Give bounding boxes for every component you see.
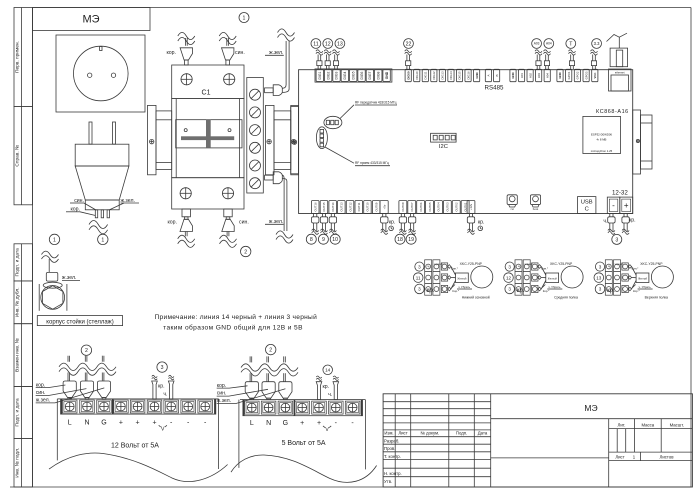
svg-text:ethernet: ethernet [615, 71, 625, 75]
svg-text:Т. контр.: Т. контр. [384, 454, 401, 459]
svg-text:ч.: ч. [163, 392, 167, 398]
svg-text:Кор.*: Кор.* [452, 289, 460, 293]
svg-text:9: 9 [322, 237, 325, 243]
svg-text:12: 12 [325, 41, 331, 47]
svg-text:OUT09: OUT09 [374, 202, 378, 211]
svg-text:C: C [585, 207, 589, 213]
svg-text:RF передатчик 433/315 МГц: RF передатчик 433/315 МГц [355, 101, 397, 105]
svg-text:OUT14: OUT14 [331, 202, 335, 211]
svg-text:3: 3 [599, 287, 602, 292]
svg-text:11: 11 [416, 275, 421, 280]
svg-text:ч. Убрать: ч. Убрать [639, 285, 652, 289]
svg-text:V: V [161, 427, 165, 433]
svg-text:N: N [266, 420, 271, 427]
svg-text:МЭ: МЭ [584, 403, 597, 413]
svg-text:корпус стойки (стеллаж): корпус стойки (стеллаж) [46, 318, 113, 325]
svg-text:-: - [612, 201, 615, 210]
svg-text:Желтый: Желтый [638, 278, 648, 281]
svg-text:A03: A03 [537, 73, 541, 78]
svg-text:2: 2 [269, 347, 272, 353]
svg-text:кр.: кр. [478, 220, 485, 226]
svg-text:I2C: I2C [439, 144, 448, 150]
svg-text:GND: GND [558, 72, 562, 78]
svg-text:+: + [152, 419, 156, 426]
svg-text:Верхняя полка: Верхняя полка [645, 296, 668, 300]
svg-text:OUT10: OUT10 [366, 202, 370, 211]
svg-text:OUT07: OUT07 [410, 202, 414, 211]
svg-text:DIG6: DIG6 [360, 71, 364, 79]
svg-text:13: 13 [337, 41, 343, 47]
svg-text:1: 1 [243, 15, 246, 21]
svg-text:Нижний основной: Нижний основной [462, 296, 490, 300]
svg-text:A01: A01 [520, 73, 524, 78]
svg-text:ч. Убрать: ч. Убрать [458, 285, 471, 289]
svg-text:A04: A04 [546, 42, 552, 46]
svg-text:DIG16: DIG16 [466, 71, 470, 80]
svg-text:XKC-Y25-PNP: XKC-Y25-PNP [640, 262, 663, 266]
svg-text:XKC-Y25-PNP: XKC-Y25-PNP [460, 262, 483, 266]
svg-text:Инв. № дубл.: Инв. № дубл. [15, 287, 21, 317]
svg-text:Кор.*: Кор.* [543, 289, 551, 293]
svg-text:G: G [101, 419, 106, 426]
svg-text:+: + [119, 419, 123, 426]
svg-text:micropython 1.25: micropython 1.25 [591, 149, 613, 153]
svg-text:GND: GND [385, 71, 389, 79]
svg-text:3: 3 [508, 264, 511, 269]
svg-text:A03: A03 [534, 42, 540, 46]
svg-text:Син.*: Син.* [451, 267, 459, 271]
svg-text:2: 2 [244, 249, 247, 255]
svg-text:3.3: 3.3 [594, 41, 600, 46]
svg-text:ч.: ч. [603, 218, 607, 224]
svg-text:син.: син. [239, 220, 249, 226]
svg-text:Примечание: линия 14 черный +: Примечание: линия 14 черный + линия 3 че… [155, 313, 318, 321]
svg-text:Подп. и дата: Подп. и дата [15, 398, 21, 427]
svg-text:Утв.: Утв. [384, 479, 392, 484]
svg-text:3: 3 [615, 237, 618, 243]
svg-text:18: 18 [397, 237, 403, 243]
svg-text:DIG14: DIG14 [449, 71, 453, 80]
svg-text:Лит.: Лит. [618, 422, 626, 427]
svg-text:DIG5: DIG5 [351, 71, 355, 79]
svg-text:+5v: +5v [382, 204, 386, 209]
svg-text:КС868-А16: КС868-А16 [596, 109, 629, 115]
svg-text:DIG7: DIG7 [368, 71, 372, 79]
svg-text:Разраб.: Разраб. [384, 439, 399, 444]
svg-text:ч.: ч. [328, 392, 332, 398]
svg-text:GPO3: GPO3 [584, 71, 588, 79]
svg-text:B: B [495, 74, 499, 76]
svg-text:Масшт.: Масшт. [670, 422, 684, 427]
svg-text:OUT13: OUT13 [340, 202, 344, 211]
svg-text:1: 1 [53, 237, 56, 243]
svg-text:3: 3 [418, 264, 421, 269]
svg-text:A04: A04 [545, 73, 549, 78]
svg-text:DIG10: DIG10 [415, 71, 419, 80]
svg-text:Изм.: Изм. [384, 431, 393, 436]
svg-text:L: L [68, 419, 72, 426]
svg-text:Син.*: Син.* [631, 267, 639, 271]
svg-text:USB: USB [581, 200, 593, 206]
svg-text:12 Вольт от 5А: 12 Вольт от 5А [111, 443, 159, 450]
svg-text:OUT04: OUT04 [437, 202, 441, 211]
svg-text:OUT02: OUT02 [454, 202, 458, 211]
svg-text:OUT03: OUT03 [446, 202, 450, 211]
svg-text:C1: C1 [202, 90, 211, 97]
svg-text:2: 2 [85, 348, 88, 354]
svg-text:DIG15: DIG15 [458, 71, 462, 80]
svg-text:таким образом GND общий для 12: таким образом GND общий для 12В и 5В [163, 324, 303, 332]
svg-text:Подп. и дата: Подп. и дата [15, 248, 21, 277]
svg-text:GPO2: GPO2 [576, 71, 580, 79]
svg-text:DIG09: DIG09 [406, 71, 410, 80]
svg-text:OUT12: OUT12 [348, 202, 352, 211]
svg-text:12: 12 [506, 275, 512, 280]
svg-text:12-32: 12-32 [612, 190, 628, 197]
svg-text:8: 8 [310, 237, 313, 243]
svg-text:+: + [624, 201, 629, 210]
svg-text:кор.: кор. [166, 50, 176, 56]
svg-text:кор.: кор. [167, 220, 177, 226]
svg-text:DIG11: DIG11 [424, 71, 428, 79]
svg-text:Желтый: Желтый [548, 278, 558, 281]
svg-text:boot: boot [533, 207, 539, 211]
svg-text:A: A [487, 74, 491, 76]
svg-text:5 Вольт от 5А: 5 Вольт от 5А [282, 440, 326, 447]
svg-text:OUT11: OUT11 [357, 202, 361, 211]
svg-text:G: G [283, 420, 288, 427]
svg-text:Листов: Листов [660, 455, 675, 460]
svg-text:XKC-Y25-PNP: XKC-Y25-PNP [550, 262, 573, 266]
svg-text:A02: A02 [528, 73, 532, 78]
svg-text:13: 13 [596, 275, 602, 280]
svg-text:DIG13: DIG13 [441, 71, 445, 80]
svg-text:DIG2: DIG2 [326, 71, 330, 79]
svg-text:3: 3 [418, 287, 421, 292]
svg-text:+: + [300, 420, 304, 427]
svg-text:кр.: кр. [389, 220, 396, 226]
svg-text:GND: GND [475, 72, 479, 78]
svg-text:L: L [250, 420, 254, 427]
svg-text:ч. Убрать: ч. Убрать [548, 285, 561, 289]
svg-text:OUT08: OUT08 [401, 202, 405, 211]
svg-text:Инв. № подл.: Инв. № подл. [15, 448, 21, 478]
svg-text:Справ. №: Справ. № [15, 145, 21, 167]
svg-text:10: 10 [332, 237, 338, 243]
svg-text:Н. контр.: Н. контр. [384, 471, 402, 476]
svg-text:VCC: VCC [593, 73, 597, 79]
svg-text:Дата: Дата [478, 431, 488, 436]
svg-text:DIG12: DIG12 [432, 71, 436, 80]
svg-text:4г 8 МВ: 4г 8 МВ [597, 138, 607, 142]
svg-text:Лист: Лист [398, 431, 407, 436]
svg-text:V: V [325, 427, 329, 433]
svg-text:DIG1: DIG1 [318, 71, 322, 79]
svg-text:rst: rst [511, 207, 514, 211]
svg-text:22: 22 [406, 41, 412, 47]
svg-text:N: N [84, 419, 89, 426]
svg-text:Кор.*: Кор.* [633, 289, 641, 293]
svg-text:кр.: кр. [158, 384, 165, 390]
svg-text:МЭ: МЭ [82, 14, 99, 26]
svg-text:Желтый: Желтый [457, 278, 467, 281]
svg-text:DIG4: DIG4 [343, 71, 347, 79]
svg-text:Взамен инв. №: Взамен инв. № [15, 338, 21, 372]
svg-text:кр.: кр. [629, 218, 636, 224]
svg-text:Син.*: Син.* [541, 267, 549, 271]
svg-text:OUT16: OUT16 [313, 202, 317, 211]
svg-text:№ докум.: № докум. [420, 431, 439, 436]
svg-text:3: 3 [161, 365, 164, 371]
svg-text:GPO1: GPO1 [567, 71, 571, 79]
svg-text:1: 1 [101, 237, 104, 243]
svg-text:+12v: +12v [469, 203, 473, 210]
svg-text:RF прием 433/315 МГц: RF прием 433/315 МГц [355, 161, 389, 165]
svg-text:OUT06: OUT06 [419, 202, 423, 211]
svg-text:14: 14 [325, 367, 331, 372]
svg-text:3: 3 [599, 264, 602, 269]
svg-text:DIG3: DIG3 [335, 71, 339, 79]
svg-text:ESP32-D0WD06: ESP32-D0WD06 [591, 132, 612, 136]
svg-text:Подп.: Подп. [456, 431, 467, 436]
svg-text:OUT05: OUT05 [428, 202, 432, 211]
svg-text:Средняя полка: Средняя полка [554, 296, 578, 300]
svg-text:Перв. примен.: Перв. примен. [15, 41, 21, 73]
svg-text:3: 3 [508, 287, 511, 292]
svg-text:DIG8: DIG8 [376, 71, 380, 79]
svg-text:+: + [317, 420, 321, 427]
svg-text:11: 11 [313, 41, 318, 47]
svg-text:RS485: RS485 [485, 85, 504, 92]
svg-text:кр.: кр. [323, 384, 330, 390]
svg-text:19: 19 [408, 237, 414, 243]
svg-text:Пров.: Пров. [384, 446, 395, 451]
svg-text:син.: син. [235, 50, 245, 56]
svg-text:Масса: Масса [641, 422, 654, 427]
svg-text:Лист: Лист [615, 455, 624, 460]
svg-text:+: + [136, 419, 140, 426]
svg-text:OUT15: OUT15 [322, 202, 326, 211]
svg-text:GND: GND [511, 72, 515, 78]
